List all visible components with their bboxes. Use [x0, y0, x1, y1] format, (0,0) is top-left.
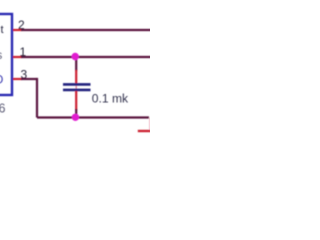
wire pin 3 vertical drop	[36, 78, 38, 118]
wire pin 1 to right edge	[21, 56, 151, 58]
wire capacitor bottom to junction node B	[75, 109, 77, 118]
pin 3 stub	[13, 78, 22, 80]
wire bottom horizontal	[37, 116, 149, 118]
wire junction node A to capacitor top	[75, 57, 77, 71]
node B junction dot	[72, 114, 79, 121]
capacitor C1 bottom lead	[75, 91, 77, 110]
svg-text:6: 6	[0, 102, 6, 116]
pin 1 stub	[13, 56, 22, 58]
wire pin 3 horizontal	[21, 78, 37, 80]
pin stub of bottom-right component	[138, 130, 151, 132]
capacitor C1 top plate	[63, 83, 91, 86]
node A junction dot	[72, 53, 79, 60]
svg-text:s: s	[0, 50, 3, 62]
capacitor C1 bottom plate	[63, 89, 91, 92]
IC U1 body	[0, 14, 12, 95]
svg-text:O: O	[0, 73, 3, 87]
svg-text:t: t	[1, 24, 4, 36]
capacitor C1 top lead	[75, 70, 77, 84]
capacitor C1 lead artifact between plates	[75, 85, 77, 91]
svg-text:0.1 mk: 0.1 mk	[92, 92, 129, 106]
pin 2 stub	[13, 29, 22, 31]
wire pin 2 to right edge	[21, 29, 151, 31]
wire right edge down jog	[149, 118, 151, 132]
